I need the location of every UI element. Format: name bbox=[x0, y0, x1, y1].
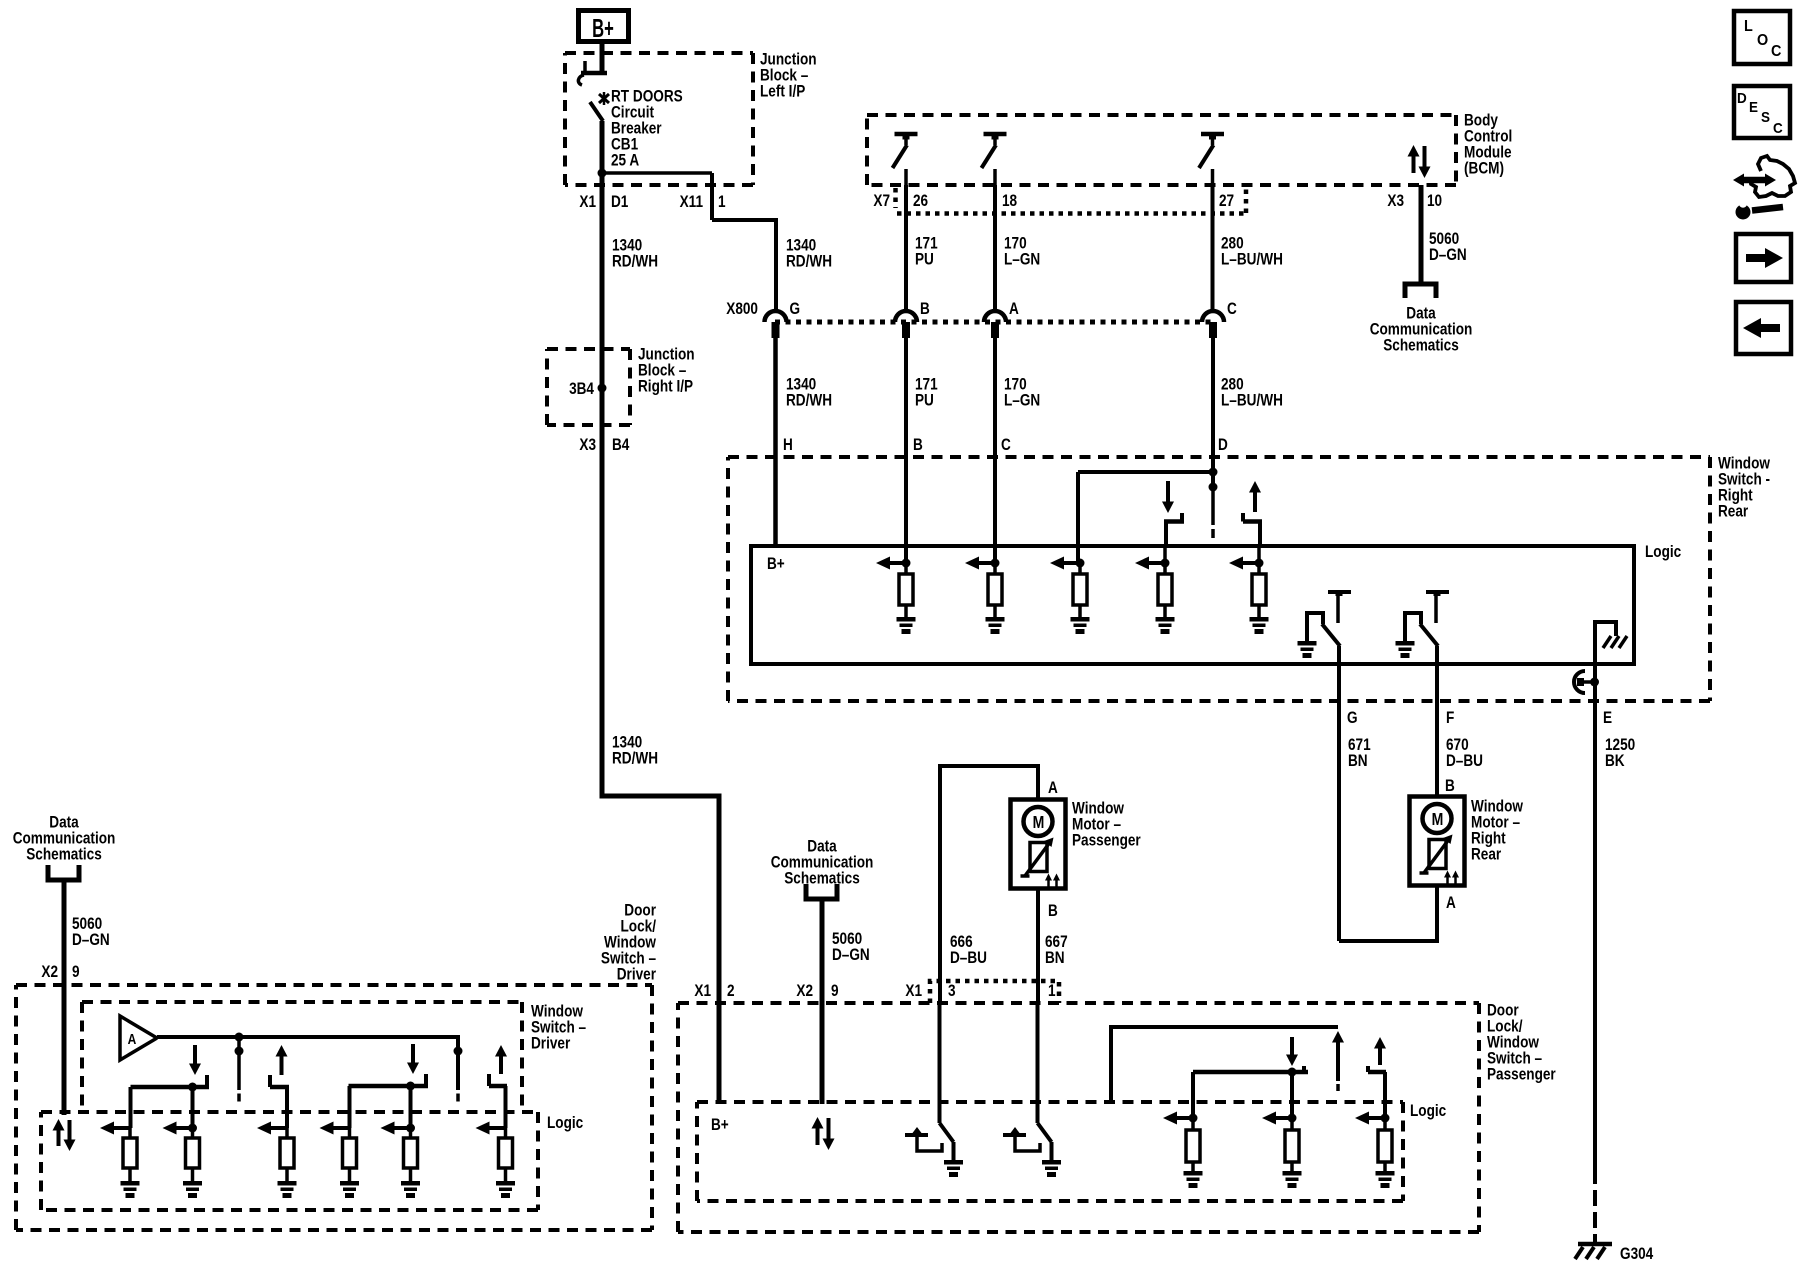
svg-text:Schematics: Schematics bbox=[784, 869, 860, 888]
svg-text:L–BU/WH: L–BU/WH bbox=[1221, 250, 1283, 269]
svg-text:Schematics: Schematics bbox=[1383, 336, 1459, 355]
svg-text:X800: X800 bbox=[726, 300, 758, 319]
svg-text:E: E bbox=[1603, 709, 1612, 728]
svg-text:A: A bbox=[1009, 300, 1019, 319]
svg-text:E: E bbox=[1749, 99, 1758, 116]
svg-text:X3: X3 bbox=[1387, 192, 1404, 211]
svg-text:PU: PU bbox=[915, 250, 934, 269]
svg-text:10: 10 bbox=[1427, 192, 1442, 211]
svg-text:X3: X3 bbox=[579, 436, 596, 455]
svg-text:X2: X2 bbox=[41, 963, 58, 982]
svg-text:Right I/P: Right I/P bbox=[638, 377, 693, 396]
svg-text:L: L bbox=[1744, 17, 1753, 35]
svg-text:Passenger: Passenger bbox=[1487, 1065, 1556, 1084]
svg-text:B: B bbox=[1048, 902, 1058, 921]
svg-text:A: A bbox=[1048, 779, 1058, 798]
svg-text:X7: X7 bbox=[873, 192, 890, 211]
svg-text:S: S bbox=[1761, 109, 1770, 126]
svg-text:M: M bbox=[1033, 812, 1045, 832]
svg-text:Left I/P: Left I/P bbox=[760, 82, 805, 101]
svg-text:C: C bbox=[1771, 42, 1781, 60]
svg-text:B: B bbox=[913, 436, 923, 455]
svg-text:Rear: Rear bbox=[1471, 845, 1501, 864]
svg-text:L–BU/WH: L–BU/WH bbox=[1221, 391, 1283, 410]
svg-text:27: 27 bbox=[1219, 192, 1234, 211]
svg-text:D: D bbox=[1218, 436, 1228, 455]
svg-text:X2: X2 bbox=[796, 982, 813, 1001]
svg-text:G: G bbox=[1347, 709, 1358, 728]
svg-text:B: B bbox=[1445, 777, 1455, 796]
svg-text:G304: G304 bbox=[1620, 1245, 1654, 1264]
svg-text:Logic: Logic bbox=[547, 1114, 584, 1133]
svg-text:Driver: Driver bbox=[531, 1034, 570, 1053]
svg-text:3: 3 bbox=[948, 982, 956, 1001]
svg-text:C: C bbox=[1227, 300, 1237, 319]
svg-text:Driver: Driver bbox=[617, 965, 656, 984]
svg-text:2: 2 bbox=[727, 982, 735, 1001]
svg-text:H: H bbox=[783, 436, 793, 455]
svg-text:9: 9 bbox=[72, 963, 80, 982]
svg-text:BN: BN bbox=[1045, 949, 1065, 968]
svg-text:3B4: 3B4 bbox=[569, 380, 594, 399]
svg-text:1: 1 bbox=[1048, 982, 1056, 1001]
svg-text:Logic: Logic bbox=[1410, 1102, 1447, 1121]
svg-text:D: D bbox=[1737, 90, 1747, 107]
svg-text:RD/WH: RD/WH bbox=[612, 749, 658, 768]
svg-text:B+: B+ bbox=[767, 555, 785, 574]
svg-text:BK: BK bbox=[1605, 752, 1625, 771]
svg-text:A: A bbox=[1446, 894, 1456, 913]
svg-text:PU: PU bbox=[915, 391, 934, 410]
svg-text:RD/WH: RD/WH bbox=[786, 391, 832, 410]
svg-text:D–GN: D–GN bbox=[72, 931, 110, 950]
svg-text:Logic: Logic bbox=[1645, 543, 1682, 562]
svg-text:D1: D1 bbox=[611, 193, 629, 212]
svg-text:Schematics: Schematics bbox=[26, 845, 102, 864]
svg-text:18: 18 bbox=[1002, 192, 1018, 211]
svg-text:Rear: Rear bbox=[1718, 502, 1748, 521]
svg-text:25 A: 25 A bbox=[611, 151, 639, 170]
svg-text:C: C bbox=[1773, 120, 1783, 137]
svg-text:X1: X1 bbox=[694, 982, 711, 1001]
svg-text:26: 26 bbox=[913, 192, 928, 211]
svg-text:1: 1 bbox=[718, 193, 726, 212]
svg-text:O: O bbox=[1757, 31, 1768, 49]
svg-text:X1: X1 bbox=[579, 193, 596, 212]
svg-text:Passenger: Passenger bbox=[1072, 831, 1141, 850]
svg-text:C: C bbox=[1001, 436, 1011, 455]
svg-text:(BCM): (BCM) bbox=[1464, 159, 1504, 178]
svg-text:B+: B+ bbox=[592, 13, 614, 43]
svg-text:X11: X11 bbox=[680, 193, 704, 212]
svg-text:B+: B+ bbox=[711, 1116, 729, 1135]
svg-text:L–GN: L–GN bbox=[1004, 250, 1040, 269]
svg-text:D–GN: D–GN bbox=[832, 946, 870, 965]
svg-text:D–GN: D–GN bbox=[1429, 246, 1467, 265]
svg-text:M: M bbox=[1432, 809, 1444, 829]
svg-text:D–BU: D–BU bbox=[1446, 752, 1483, 771]
svg-text:BN: BN bbox=[1348, 752, 1368, 771]
svg-text:D–BU: D–BU bbox=[950, 949, 987, 968]
svg-text:L–GN: L–GN bbox=[1004, 391, 1040, 410]
svg-text:X1: X1 bbox=[905, 982, 922, 1001]
svg-text:A: A bbox=[128, 1031, 137, 1048]
svg-text:B4: B4 bbox=[612, 436, 630, 455]
svg-text:B: B bbox=[920, 300, 930, 319]
svg-text:RD/WH: RD/WH bbox=[612, 252, 658, 271]
svg-text:9: 9 bbox=[831, 982, 839, 1001]
svg-text:RD/WH: RD/WH bbox=[786, 252, 832, 271]
svg-text:F: F bbox=[1446, 709, 1454, 728]
svg-text:G: G bbox=[790, 300, 801, 319]
